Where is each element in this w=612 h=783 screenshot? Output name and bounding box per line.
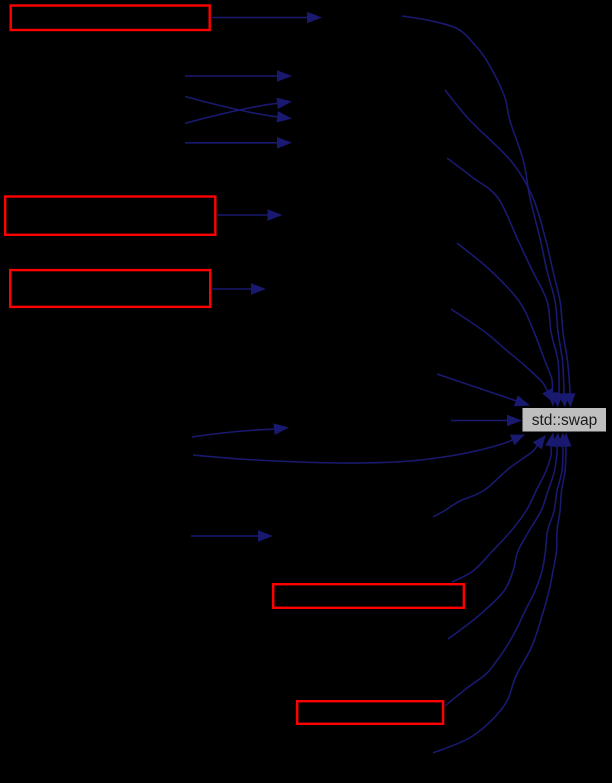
node box4 (red, truncated caller) — [273, 584, 464, 608]
edge HZ (mid caller -> std::swap left) — [451, 415, 522, 427]
edge F (mid caller -> std::swap corner) — [437, 374, 530, 406]
edge L2 (row3 caller -> lower mid node, crossing) — [185, 97, 292, 123]
edge C (caller row3 -> std::swap) — [447, 158, 563, 408]
node std::swap — [523, 408, 607, 432]
edge G (lower caller -> std::swap) — [448, 433, 563, 640]
svg-text:std::swap: std::swap — [532, 412, 597, 429]
node box5 (red, truncated caller) — [297, 701, 443, 724]
edge U (box4 -> std::swap) — [452, 433, 557, 583]
edge L1 (row2 caller -> mid node) — [185, 70, 292, 82]
edge L5 (box1 -> mid node) — [212, 12, 322, 24]
edge L8 (mid-left caller -> mid node) — [192, 423, 289, 437]
node box1 (red, truncated caller) — [11, 6, 210, 31]
edge B (caller row2 -> std::swap) — [445, 90, 575, 408]
edge L6 (box2 -> mid node) — [217, 209, 283, 221]
edge H (box5 -> std::swap) — [445, 433, 568, 707]
edge A (caller row1 -> std::swap) — [402, 16, 569, 408]
edge T (mid caller -> std::swap) — [433, 435, 546, 517]
node box3 (red, truncated caller) — [10, 270, 210, 307]
edge L4 (row5 caller -> mid node) — [185, 137, 292, 149]
edge D (caller box2 path -> std::swap) — [457, 243, 558, 407]
edge I (lowest caller -> std::swap) — [433, 433, 572, 754]
node box2 (red, truncated caller) — [5, 197, 215, 235]
edge E (caller box3 path -> std::swap) — [451, 309, 554, 403]
edge L9 (mid-left caller -> mid node) — [191, 530, 273, 542]
edge S (long lower-left caller -> std::swap) — [193, 435, 525, 464]
edge L7 (box3 -> mid node) — [212, 283, 266, 295]
edge L3 (row4 caller -> upper mid node, crossing) — [185, 98, 292, 124]
